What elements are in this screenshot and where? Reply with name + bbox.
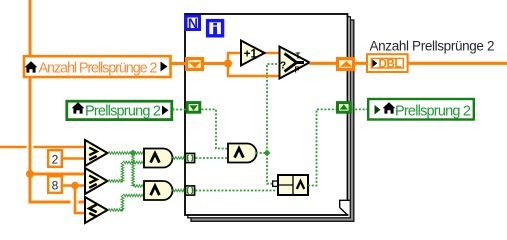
wire: AND2 output to tunnel 2	[172, 189, 184, 192]
read arrow	[375, 105, 381, 115]
diamond junction on boolean trunk	[264, 150, 271, 157]
shift register right (orange, up arrow)	[338, 59, 354, 70]
increment +1 node	[241, 41, 265, 66]
svg-text:Anzahl Prellsprünge 2: Anzahl Prellsprünge 2	[370, 39, 495, 54]
loop back frame 2	[188, 17, 350, 218]
numeric constant 8	[48, 176, 62, 193]
wire: orange label to left orange shift register	[171, 62, 187, 65]
gap on trunk horizontal where const-8 drop wire crosses	[71, 200, 79, 205]
junction dot right of const 8	[71, 182, 79, 190]
wire: up branch to increment input	[228, 53, 241, 64]
wire: compound node output up to right green shift register	[308, 109, 337, 185]
svg-text:DBL: DBL	[379, 59, 402, 71]
local variable: Anzahl Prellspruenge 2 (orange label box)	[24, 56, 171, 77]
wire: tunnel1 to AND3 lower input	[196, 157, 229, 159]
black read arrow	[161, 62, 168, 72]
select node	[280, 47, 310, 79]
AND gate 2	[144, 181, 173, 200]
diamond junction on T1 output	[130, 150, 137, 157]
wire: orange trunk below label down and right to comparator 3 upper input	[30, 77, 85, 202]
wire: drop from const-8 junction to comparator 3 lower input	[75, 186, 85, 214]
local variable: Prellsprung 2 (green label box)	[67, 101, 172, 119]
svg-text:?: ?	[280, 61, 286, 72]
wire: green dashes label to left green shift register	[173, 109, 187, 111]
compound arithmetic AND node	[278, 175, 308, 195]
wire: right green SR to output label	[352, 108, 369, 110]
shift register left (green, down arrow)	[187, 103, 200, 113]
iteration terminal i	[208, 21, 223, 36]
wire: T3 output to AND2 lower input	[108, 209, 123, 212]
loop back frame 3 (gray)	[191, 20, 354, 221]
svg-text:2: 2	[52, 153, 59, 167]
svg-text:+1: +1	[244, 48, 258, 60]
page fold dog-ear bottom-right	[340, 201, 348, 214]
wire: AND1 output to tunnel 1	[172, 157, 184, 160]
indicator DBL terminal	[367, 54, 408, 72]
comparator greater-or-equal T1	[85, 140, 108, 166]
wire: trunk branch to comparator 2 upper input	[30, 173, 85, 176]
svg-text:8: 8	[52, 179, 59, 193]
svg-text:Prellsprung 2: Prellsprung 2	[85, 104, 161, 120]
shift register right (green, up arrow)	[338, 103, 351, 113]
house icon	[25, 61, 38, 72]
house icon	[72, 102, 85, 113]
wire: horizontal from left edge to comparator 1 upper input	[0, 146, 85, 149]
AND gate 3	[228, 144, 256, 163]
numeric constant 2	[48, 150, 62, 167]
wire: left orange SR to junction	[203, 62, 228, 65]
wire: left green shift register down to AND3 upper input	[202, 109, 229, 148]
wire: increment output to select true input	[264, 52, 279, 54]
comparator greater-or-equal T2	[85, 168, 108, 194]
wire: select output to right orange shift register	[310, 62, 338, 65]
for-loop frame 1	[185, 14, 348, 215]
wire: orange trunk from top into local variable label	[29, 0, 32, 56]
junction dot on trunk	[26, 170, 34, 178]
house icon	[383, 102, 396, 113]
tunnel 2 on loop border	[185, 186, 194, 195]
junction dot	[224, 60, 232, 68]
comparator less-or-equal T3	[85, 197, 108, 223]
invert bubble on compound node input	[273, 181, 278, 186]
wire: DBL to right edge	[408, 62, 507, 65]
tunnel 1 on loop border	[185, 153, 194, 162]
wire: AND3 output to boolean trunk	[256, 152, 267, 154]
svg-text:Prellsprung 2: Prellsprung 2	[395, 104, 471, 120]
svg-text:F: F	[295, 66, 300, 75]
wire: down branch to select false input	[228, 64, 279, 77]
wire: tunnel2 to compound node lower input	[196, 190, 279, 192]
wire: T1 output zigzag to AND1 upper input	[108, 152, 144, 155]
shift register left (orange, down arrow)	[187, 59, 203, 70]
output local variable: Prellsprung 2 (green box right)	[368, 99, 474, 120]
wire: diamond branch down to AND2 upper input	[132, 153, 135, 186]
AND gate 1	[144, 149, 172, 168]
wire: T2 output to AND1 lower input	[108, 180, 123, 183]
wire: const 8 to comparator 2 lower input	[62, 184, 85, 187]
loop count terminal N	[186, 16, 200, 30]
wire: const 2 to comparator 1 lower input	[62, 157, 85, 160]
svg-text:Anzahl Prellsprünge 2: Anzahl Prellsprünge 2	[39, 61, 158, 77]
wire: right orange SR to DBL indicator	[354, 62, 368, 65]
svg-text:T: T	[296, 52, 301, 61]
svg-text:N: N	[188, 15, 198, 31]
wire: boolean vertical trunk select-s to compound node	[267, 64, 277, 184]
black read arrow	[162, 106, 169, 116]
